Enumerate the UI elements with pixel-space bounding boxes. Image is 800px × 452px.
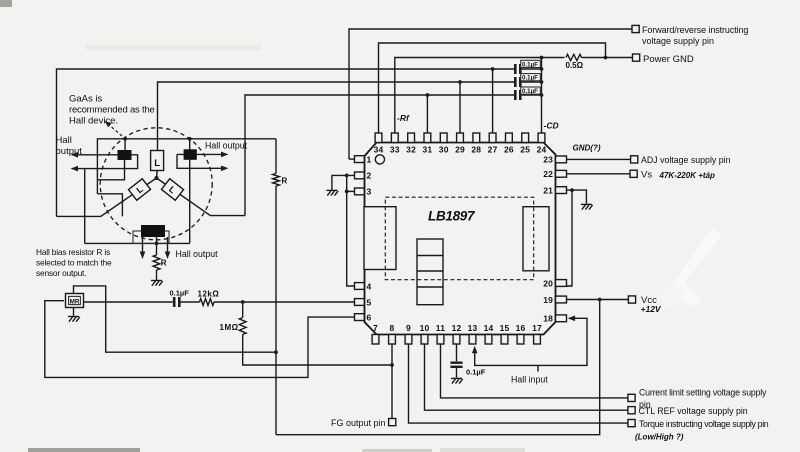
pin 28	[473, 133, 480, 143]
pin 34	[375, 133, 382, 143]
capacitor C1 0.1uF (pin 27 line)	[514, 64, 517, 74]
sensor MR (magneto-resistive FG sensor)	[66, 294, 84, 308]
IC internal left block	[364, 207, 396, 270]
pin 14	[485, 335, 492, 345]
wire: MR loop to pin 6	[45, 301, 355, 378]
svg-text:recommended as the: recommended as the	[69, 105, 155, 116]
svg-text:Power GND: Power GND	[643, 54, 694, 65]
wire: pin 31 drop	[426, 95, 428, 133]
pin 27	[489, 133, 496, 143]
svg-text:18: 18	[543, 314, 553, 324]
svg-text:21: 21	[543, 185, 553, 195]
svg-text:1MΩ: 1MΩ	[220, 323, 239, 332]
pin 4	[355, 283, 365, 290]
svg-text:0.5Ω: 0.5Ω	[566, 61, 584, 70]
resistor R5 1M ohm	[242, 302, 244, 318]
resistor R3 (hall bias R, right column)	[273, 174, 280, 187]
watermark arrow (scan artifact)	[668, 228, 722, 308]
hall sensor H2 (upper right)	[184, 149, 197, 160]
wire: motor phase line 2 (top coil)	[158, 82, 515, 151]
pin 33	[391, 133, 398, 143]
wire: forward/reverse line from pin 1 to top-right terminal	[349, 29, 632, 159]
pin 30	[440, 133, 447, 143]
svg-text:11: 11	[436, 323, 445, 333]
pin 15	[501, 335, 508, 345]
pin 20	[556, 280, 567, 287]
svg-text:Hall device.: Hall device.	[69, 116, 118, 127]
svg-text:26: 26	[504, 145, 514, 155]
svg-text:FG output pin: FG output pin	[331, 418, 386, 428]
wire: star point to right coil lead	[157, 178, 246, 216]
svg-text:13: 13	[468, 323, 478, 333]
svg-text:20: 20	[543, 278, 553, 288]
wire: bottom sensor output arrows	[142, 237, 144, 255]
terminal: power GND	[633, 54, 640, 61]
svg-text:R: R	[161, 259, 167, 268]
svg-text:29: 29	[455, 145, 465, 155]
pin 19	[556, 296, 567, 303]
wire: right hall sensor output (upper)	[177, 153, 225, 155]
wire: left sensor top stub to bias line	[124, 139, 126, 150]
svg-text:GaAs is: GaAs is	[69, 94, 103, 105]
pin 7	[372, 335, 379, 345]
svg-text:8: 8	[390, 323, 395, 333]
wire: R column (hall bias feed from Vcc)	[275, 139, 277, 174]
pin 11	[437, 335, 444, 345]
svg-text:16: 16	[516, 323, 526, 333]
svg-text:17: 17	[532, 323, 542, 333]
svg-text:GND(?): GND(?)	[573, 144, 601, 153]
svg-text:27: 27	[488, 145, 498, 155]
svg-text:23: 23	[543, 155, 553, 165]
terminal: Vs	[630, 170, 637, 177]
terminal: ADJ	[631, 156, 638, 163]
svg-text:6: 6	[367, 312, 372, 322]
IC internal right block	[523, 207, 549, 271]
svg-text:Hall bias resistor R is: Hall bias resistor R is	[36, 247, 110, 257]
wire: pin 29 drop	[459, 82, 461, 133]
resistor R1 0.5 ohm (power GND)	[566, 54, 582, 60]
wire: pin 11 to current limit terminal	[441, 344, 628, 398]
svg-text:Vs: Vs	[641, 170, 652, 181]
svg-text:(Low/High ?): (Low/High ?)	[635, 432, 684, 441]
wire: ground branch near pin 2	[332, 175, 347, 189]
wire: pin 8 to FG output	[391, 344, 393, 419]
wire: 1M ohm to pin 8 line	[243, 335, 392, 366]
pin 17	[534, 335, 541, 345]
ground at pin 21	[581, 204, 593, 209]
wire: sensor to bias resistor R	[156, 237, 158, 255]
svg-text:19: 19	[543, 295, 553, 305]
capacitor C5 0.1uF (pin 12 decoupling)	[450, 362, 462, 364]
pin 25	[522, 133, 529, 143]
pin 22	[556, 170, 567, 177]
svg-text:ADJ voltage supply pin: ADJ voltage supply pin	[641, 155, 731, 165]
inductor L2 (left phase coil)	[128, 179, 150, 200]
wire: right sensor center stub from bias line down to loop	[189, 139, 191, 244]
dashed leader arrow to hall device	[108, 124, 125, 139]
svg-text:12kΩ: 12kΩ	[198, 290, 220, 299]
pin 29	[457, 133, 464, 143]
svg-text:25: 25	[520, 145, 530, 155]
svg-text:Hall output: Hall output	[205, 141, 248, 151]
terminal: current limit	[628, 394, 635, 401]
pin 9	[405, 335, 412, 345]
wire: pin 23 to ADJ terminal	[567, 158, 631, 160]
pin 32	[408, 133, 415, 143]
pin 3	[355, 188, 365, 195]
wire: MR top loop to line B	[74, 286, 277, 352]
IC internal center stack	[417, 239, 443, 305]
svg-text:MR: MR	[70, 299, 80, 306]
pin 21	[556, 187, 567, 194]
svg-text:-Rf: -Rf	[397, 113, 410, 123]
pin 6	[355, 314, 365, 321]
wire: pin 34 up to second top line over to power gnd drop	[379, 43, 606, 133]
wire: pin 9 to torque terminal	[409, 344, 628, 423]
wire: pin 12 to decoupling cap	[456, 344, 458, 361]
pin 23	[556, 156, 567, 163]
svg-text:LB1897: LB1897	[428, 209, 476, 224]
svg-text:32: 32	[406, 145, 416, 155]
svg-text:selected to match the: selected to match the	[36, 258, 112, 268]
svg-text:1: 1	[367, 154, 372, 164]
wire: lower-left link	[84, 169, 86, 244]
resistor R2 (hall bias R, bottom)	[153, 255, 160, 270]
bottom sensor outline box	[133, 231, 169, 243]
svg-text:34: 34	[374, 145, 384, 155]
wire: power GND line from pin 33	[395, 58, 565, 134]
svg-text:14: 14	[484, 323, 494, 333]
wire: pin 10 to CTL REF terminal	[425, 344, 628, 410]
terminal: Vcc	[628, 296, 635, 303]
svg-text:4: 4	[367, 281, 372, 291]
wire: motor phase line 1 (left diamond coil)	[57, 69, 515, 216]
pin 16	[517, 335, 524, 345]
pin 31	[424, 133, 431, 143]
wire: left sensor bottom stub	[97, 160, 124, 180]
svg-text:L: L	[154, 158, 160, 169]
svg-text:47K-220K +táp: 47K-220K +táp	[659, 171, 715, 180]
resistor R4 12k ohm	[200, 299, 215, 306]
wire: -CD column to pin 24	[541, 58, 543, 134]
pin 2	[355, 172, 365, 179]
inductor L3 (right phase coil)	[161, 179, 183, 200]
terminal: torque instructing	[628, 420, 635, 427]
svg-text:31: 31	[422, 145, 432, 155]
svg-text:Forward/reverse instructing: Forward/reverse instructing	[642, 25, 748, 35]
pin 10	[421, 335, 428, 345]
ground below bias resistor	[151, 281, 163, 286]
capacitor C3 0.1uF (pin 31 line)	[514, 90, 517, 100]
svg-text:9: 9	[406, 323, 411, 333]
wire: left hall sensor output (upper)	[74, 154, 118, 156]
svg-text:0.1µF: 0.1µF	[522, 75, 538, 82]
pin 13	[469, 335, 476, 345]
svg-text:Current limit setting voltage: Current limit setting voltage supply	[639, 388, 767, 398]
ground near pins 2/3	[326, 190, 338, 195]
wire: main line MR to pin 5	[84, 301, 173, 303]
svg-text:0.1µF: 0.1µF	[522, 61, 538, 68]
terminal: CTL REF	[628, 407, 635, 414]
inductor L1 (top phase coil)	[151, 151, 164, 171]
svg-text:0.1µF: 0.1µF	[170, 289, 190, 298]
terminal: forward/reverse	[632, 25, 639, 32]
pin 5	[355, 299, 365, 306]
svg-text:7: 7	[373, 323, 378, 333]
node: motor star point junction	[154, 176, 158, 180]
pin 24	[538, 133, 545, 143]
pin 18	[556, 315, 567, 322]
svg-text:R: R	[282, 177, 288, 186]
svg-text:12: 12	[452, 323, 462, 333]
motor circle (dashed)	[100, 128, 212, 240]
capacitor C2 0.1uF (pin 29 line)	[514, 77, 517, 87]
svg-text:30: 30	[439, 145, 449, 155]
wire: motor phase line 3 (right diamond coil)	[245, 95, 514, 216]
pin 26	[506, 133, 513, 143]
ground below pin 12 cap	[451, 378, 463, 383]
svg-text:33: 33	[390, 145, 400, 155]
wire: bottom hall loop	[85, 242, 190, 244]
hall sensor H1 (upper left)	[118, 150, 132, 160]
svg-text:Hall: Hall	[56, 135, 72, 146]
svg-text:10: 10	[420, 323, 430, 333]
svg-text:Hall input: Hall input	[511, 375, 548, 385]
pin 12	[453, 335, 460, 345]
IC internal dashed block	[385, 197, 533, 280]
pin 1	[355, 156, 365, 163]
ground below MR	[73, 308, 75, 316]
svg-text:3: 3	[367, 187, 372, 197]
svg-text:0.1µF: 0.1µF	[522, 88, 538, 95]
svg-text:5: 5	[367, 297, 372, 307]
IC U1 LB1897 motor driver body	[365, 143, 556, 335]
wire: pins 21-20 tied, grounded	[564, 190, 572, 286]
wire: pins 2-3-4 chain	[347, 175, 355, 286]
svg-text:output: output	[56, 146, 83, 157]
svg-text:24: 24	[537, 145, 547, 155]
capacitor C4 0.1uF (series, MR line)	[173, 297, 176, 307]
svg-text:0.1µF: 0.1µF	[466, 368, 486, 377]
pin 8	[389, 335, 396, 345]
svg-text:Torque instructing voltage sup: Torque instructing voltage supply pin	[639, 419, 769, 429]
wire: pin 22 to Vs terminal	[567, 173, 631, 175]
wire: bottom long line to Vcc	[276, 300, 600, 435]
wire: left hall sensor output (lower)	[74, 155, 138, 169]
hall input bracket	[475, 318, 587, 365]
hall sensor H3 (bottom)	[141, 225, 165, 237]
svg-text:voltage supply pin: voltage supply pin	[642, 36, 714, 46]
wire: hall bias top line	[97, 139, 276, 194]
svg-text:sensor output.: sensor output.	[36, 268, 86, 278]
wire: phase line to left coil	[57, 178, 157, 216]
svg-text:2: 2	[367, 171, 372, 181]
svg-text:15: 15	[500, 323, 510, 333]
wire: pin 19 to Vcc	[567, 299, 629, 301]
wire: staircase to phase line	[97, 194, 122, 217]
svg-text:-CD: -CD	[544, 121, 559, 131]
svg-text:Hall output: Hall output	[176, 249, 219, 259]
terminal square: FG output pin	[389, 419, 396, 426]
svg-text:CTL REF voltage supply pin: CTL REF voltage supply pin	[639, 406, 748, 416]
wire: pin 27 drop	[492, 69, 494, 133]
svg-text:22: 22	[543, 169, 553, 179]
wire: right hall sensor output (lower)	[177, 154, 225, 168]
svg-text:28: 28	[471, 145, 481, 155]
svg-text:+12V: +12V	[641, 304, 662, 314]
pin 1 index circle	[375, 155, 384, 164]
